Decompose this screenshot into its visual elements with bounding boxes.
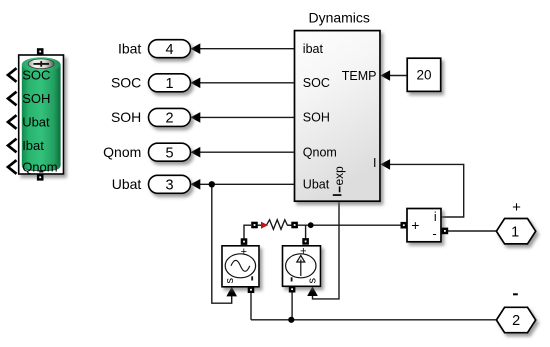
svg-text:SOH: SOH: [303, 111, 330, 125]
svg-text:3: 3: [165, 178, 173, 194]
svg-text:Ubat: Ubat: [112, 176, 142, 192]
svg-text:SOH: SOH: [22, 91, 50, 106]
svg-text:Qnom: Qnom: [303, 146, 337, 160]
svg-text:2: 2: [512, 313, 520, 329]
svg-text:+: +: [300, 246, 306, 258]
svg-text:Ibat: Ibat: [22, 138, 44, 153]
svg-text:Ubat: Ubat: [303, 178, 330, 192]
svg-text:SOC: SOC: [111, 74, 141, 90]
svg-text:Qnom: Qnom: [22, 160, 57, 175]
svg-text:Dynamics: Dynamics: [308, 10, 369, 26]
svg-text:SOC: SOC: [22, 68, 50, 83]
svg-text:SOH: SOH: [111, 109, 141, 125]
svg-text:Ubat: Ubat: [22, 115, 50, 130]
svg-text:1: 1: [165, 76, 173, 92]
svg-text:-: -: [432, 226, 436, 241]
svg-text:20: 20: [416, 68, 431, 83]
svg-text:exp: exp: [332, 166, 346, 186]
svg-text:+: +: [512, 199, 521, 216]
svg-text:ibat: ibat: [303, 42, 324, 56]
svg-text:i: i: [434, 210, 437, 224]
svg-text:1: 1: [511, 224, 519, 240]
svg-text:4: 4: [165, 42, 173, 58]
svg-text:I: I: [373, 156, 376, 170]
svg-text:+: +: [241, 246, 247, 258]
svg-text:s: s: [307, 278, 319, 284]
svg-text:5: 5: [165, 145, 173, 161]
svg-text:TEMP: TEMP: [342, 69, 377, 83]
svg-text:+: +: [411, 217, 419, 233]
svg-text:SOC: SOC: [303, 76, 330, 90]
svg-text:2: 2: [165, 111, 173, 127]
svg-text:Qnom: Qnom: [103, 144, 141, 160]
svg-text:s: s: [224, 278, 236, 284]
svg-text:Ibat: Ibat: [118, 40, 141, 56]
